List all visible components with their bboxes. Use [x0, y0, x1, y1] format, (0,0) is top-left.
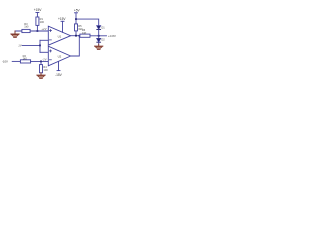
- wire node A row: [15, 30, 48, 32]
- junction fork: [39, 45, 41, 47]
- resistor R2: [20, 60, 30, 63]
- resistor R1: [36, 17, 39, 25]
- wire R1 to node A: [36, 25, 38, 31]
- diode D2: [97, 36, 101, 42]
- wire +5V down to R5: [75, 13, 77, 24]
- junction diode column: [98, 35, 100, 37]
- pin - of U2: [49, 59, 51, 61]
- wire U1 V+ pin: [62, 21, 64, 32]
- resistor R3: [22, 29, 30, 32]
- junction output / R5: [75, 35, 77, 37]
- junction node A: [37, 30, 39, 32]
- wire R6 to out: [90, 35, 107, 37]
- svg-text:U2: U2: [58, 55, 62, 59]
- diode D1: [97, 26, 101, 36]
- svg-text:240: 240: [82, 31, 87, 35]
- svg-text:+15V: +15V: [34, 8, 43, 12]
- svg-text:-15V: -15V: [55, 73, 63, 77]
- svg-text:D2: D2: [101, 38, 105, 42]
- wire junction to R4: [40, 61, 42, 64]
- pin + of U2: [49, 50, 51, 52]
- wire fork to U1 minus: [40, 39, 48, 41]
- svg-text:100: 100: [43, 68, 48, 72]
- wire fork vertical: [39, 40, 41, 52]
- wire U1 output: [71, 35, 80, 37]
- U2 V- terminal bar: [57, 70, 60, 72]
- wire R5 to output line: [75, 31, 77, 36]
- resistor R4: [40, 65, 43, 73]
- svg-text:D1: D1: [101, 26, 105, 30]
- ground bottom: [37, 73, 45, 79]
- junction +5V branch: [75, 18, 77, 20]
- svg-text:100: 100: [40, 20, 45, 24]
- +15V terminal bar: [36, 12, 39, 14]
- resistor R6: [80, 34, 90, 37]
- svg-text:1k0: 1k0: [24, 25, 29, 29]
- svg-text:1k0: 1k0: [23, 56, 28, 60]
- svg-text:-10V: -10V: [2, 60, 8, 64]
- junction output / U2 feedback: [79, 35, 81, 37]
- ground right: [95, 42, 103, 49]
- +5V terminal bar: [75, 12, 78, 14]
- wire +15V to R1: [36, 13, 38, 18]
- wire -10V to R2: [12, 60, 20, 62]
- pin + of U1: [49, 30, 51, 32]
- wire R2 to U2 minus: [31, 60, 49, 62]
- wire +5V branch to diode column: [76, 19, 99, 25]
- U1 V+ terminal bar: [61, 20, 64, 22]
- pin - of U1: [49, 39, 51, 41]
- wire U2 output up to node: [71, 36, 80, 56]
- ground left: [11, 31, 19, 37]
- junction R4 tap: [40, 61, 42, 63]
- resistor R5: [75, 24, 78, 31]
- svg-text:+15V: +15V: [58, 17, 66, 21]
- wire input to fork: [22, 44, 40, 46]
- svg-text:+5V: +5V: [74, 8, 81, 12]
- svg-text:U1: U1: [58, 34, 62, 38]
- wire U2 V- pin: [58, 61, 60, 70]
- svg-text:+0.8V: +0.8V: [108, 34, 116, 38]
- op-amp U1: [48, 26, 70, 45]
- wire fork to U2 plus: [40, 51, 48, 53]
- op-amp U2: [48, 46, 70, 66]
